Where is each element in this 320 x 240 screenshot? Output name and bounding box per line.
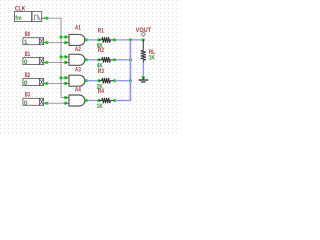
svg-text:B3: B3 <box>25 92 31 99</box>
svg-text:B0: B0 <box>25 31 31 38</box>
svg-text:R2: R2 <box>98 47 104 54</box>
svg-text:1K: 1K <box>97 103 103 110</box>
svg-text:A4: A4 <box>75 87 81 94</box>
svg-text:B1: B1 <box>25 51 31 58</box>
svg-text:fm: fm <box>15 15 21 22</box>
svg-text:0: 0 <box>24 59 28 66</box>
svg-text:R4: R4 <box>98 88 104 95</box>
svg-text:A1: A1 <box>75 25 81 32</box>
svg-text:0: 0 <box>24 100 28 107</box>
svg-text:1: 1 <box>24 39 28 46</box>
svg-text:CLK: CLK <box>15 5 25 12</box>
svg-text:1K: 1K <box>149 54 155 61</box>
svg-text:A3: A3 <box>75 67 81 74</box>
svg-text:R1: R1 <box>98 27 104 34</box>
svg-text:0: 0 <box>24 80 28 87</box>
svg-text:A2: A2 <box>75 46 81 53</box>
svg-text:R3: R3 <box>98 68 104 75</box>
svg-text:B2: B2 <box>25 72 31 79</box>
